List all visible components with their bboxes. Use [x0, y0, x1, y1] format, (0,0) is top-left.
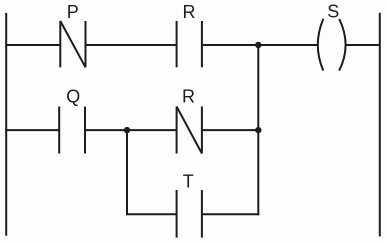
contact R2 (normally closed): [177, 107, 202, 154]
wire R1 to coil S: [203, 44, 319, 46]
contact T (normally open): [177, 190, 202, 238]
svg-text:T: T: [183, 172, 194, 192]
wire coil S to right rail: [346, 44, 380, 46]
contact Q (normally open): [59, 107, 85, 154]
branch wire left to T: [126, 213, 176, 215]
contact P (normally closed): [60, 21, 85, 67]
wire P to R1: [86, 44, 176, 46]
wire Q to R2: [86, 129, 177, 131]
vertical wire rung2 node to branch: [126, 130, 128, 215]
node junction rung2 left: [124, 127, 130, 133]
wire rung1 left rail to P: [5, 44, 59, 46]
branch wire T to vertical: [203, 213, 260, 215]
wire R2 to junction: [203, 129, 259, 131]
right power rail: [379, 13, 381, 237]
vertical wire rung1 node to branch: [257, 45, 259, 215]
left power rail: [5, 13, 7, 236]
svg-text:R: R: [183, 2, 196, 22]
wire rung2 left rail to Q: [5, 129, 58, 131]
node junction rung1: [255, 42, 261, 48]
svg-text:S: S: [327, 1, 339, 21]
coil S: [318, 19, 346, 71]
svg-text:R: R: [182, 86, 195, 106]
svg-text:P: P: [67, 2, 79, 22]
contact R1 (normally open): [177, 21, 202, 67]
node junction rung2 right: [255, 127, 261, 133]
svg-text:Q: Q: [66, 86, 80, 106]
